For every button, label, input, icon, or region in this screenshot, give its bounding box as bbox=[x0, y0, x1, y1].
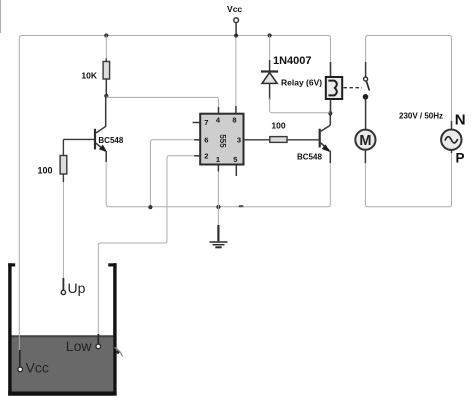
tank left wall bbox=[8, 263, 11, 395]
svg-text:BC548: BC548 bbox=[98, 136, 123, 145]
wire: small dark dash on net bbox=[239, 205, 244, 207]
left edge artifact line bbox=[0, 0, 2, 33]
svg-text:555: 555 bbox=[218, 134, 227, 148]
pin 2 lead bbox=[194, 155, 200, 157]
svg-text:Low: Low bbox=[66, 338, 93, 354]
svg-text:M: M bbox=[359, 133, 371, 149]
wire: diode bottom to relay junction bbox=[270, 98, 331, 113]
wire: 555 pin 6 to lower net bbox=[150, 140, 200, 207]
wire: emitter net (main horizontal) bbox=[106, 162, 330, 207]
svg-text:Vcc: Vcc bbox=[227, 4, 242, 14]
switch SW1 (relay contact) bbox=[363, 62, 369, 130]
svg-text:1: 1 bbox=[216, 155, 220, 164]
pin 4 lead bbox=[218, 107, 220, 114]
wire: junction to 555 pin 4 bbox=[106, 96, 218, 107]
node: rail junction at 10K bbox=[104, 33, 108, 37]
wire artifact crossing right wall bbox=[115, 348, 123, 357]
transistor Q2 BC548 bbox=[320, 113, 331, 163]
node: junction net / pin 1 / ground bbox=[216, 205, 220, 209]
svg-text:6: 6 bbox=[204, 136, 208, 145]
probe terminal Up bbox=[61, 278, 65, 295]
node: rail junction at Vcc terminal bbox=[234, 33, 238, 37]
wire: R3 to Q2 base bbox=[287, 139, 319, 141]
diode D1 1N4007 bbox=[261, 36, 278, 101]
tank bottom wall bbox=[8, 391, 116, 395]
Vcc terminal bbox=[234, 18, 239, 36]
tank right wall bbox=[113, 263, 116, 395]
wire: rail to resistor R1 bbox=[105, 36, 107, 59]
IC U1 555 timer bbox=[200, 114, 243, 165]
resistor R3 100 (horizontal) bbox=[270, 137, 287, 143]
svg-text:7: 7 bbox=[204, 118, 208, 127]
wire: left rail into tank + Vcc probe bbox=[18, 350, 23, 372]
svg-text:1N4007: 1N4007 bbox=[273, 55, 312, 67]
pin 1 lead bbox=[217, 165, 219, 172]
svg-text:Relay (6V): Relay (6V) bbox=[281, 78, 322, 88]
node: junction net / pin 6 bbox=[148, 205, 152, 209]
tank water bbox=[12, 336, 114, 392]
svg-text:P: P bbox=[456, 151, 465, 166]
svg-text:BC548: BC548 bbox=[297, 153, 322, 162]
svg-text:N: N bbox=[455, 112, 466, 129]
svg-text:8: 8 bbox=[232, 116, 236, 125]
svg-text:Vcc: Vcc bbox=[26, 360, 49, 376]
node: junction relay / diode / Q2 collector bbox=[328, 111, 332, 115]
wire: 555 pin 3 to R3 bbox=[244, 139, 270, 141]
motor M1 bbox=[355, 130, 375, 150]
svg-text:230V / 50Hz: 230V / 50Hz bbox=[399, 111, 443, 120]
svg-text:2: 2 bbox=[204, 152, 208, 161]
wire: Vcc top rail (left vertical + top horizontal to relay) bbox=[19, 36, 330, 353]
ground bbox=[210, 225, 228, 247]
pin 7 lead (stub) bbox=[193, 122, 201, 124]
svg-text:100: 100 bbox=[271, 121, 285, 131]
svg-text:10K: 10K bbox=[81, 71, 97, 81]
node: rail junction at diode D1 bbox=[268, 33, 272, 37]
svg-text:3: 3 bbox=[237, 136, 241, 145]
resistor R2 100 (vertical) bbox=[60, 139, 67, 182]
wire: dashed relay-to-switch link bbox=[344, 87, 363, 89]
AC source V1 230V/50Hz bbox=[441, 121, 461, 150]
wire: top-right link switch to AC source bbox=[366, 36, 452, 122]
wire: Q1 base to R2 bbox=[63, 138, 94, 140]
pin 8 lead bbox=[235, 106, 237, 114]
wire: 555 pin 2 to Low probe bbox=[98, 156, 200, 334]
relay RL1 coil bbox=[326, 62, 342, 113]
svg-text:100: 100 bbox=[37, 166, 52, 176]
probe terminal Low bbox=[96, 334, 101, 349]
dark nub on right wall bbox=[116, 351, 119, 353]
pin 5 lead (stub) bbox=[235, 165, 237, 177]
pin 6 lead bbox=[194, 139, 200, 141]
svg-text:5: 5 bbox=[233, 155, 237, 164]
svg-text:Up: Up bbox=[68, 280, 86, 296]
tank right rim flange bbox=[108, 263, 116, 266]
node: junction R1 / Q1 collector / pin4 wire bbox=[104, 94, 108, 98]
resistor R1 10K bbox=[103, 59, 110, 96]
transistor Q1 BC548 bbox=[95, 96, 107, 162]
wire: motor to bottom loop bbox=[365, 150, 451, 207]
tank left rim flange bbox=[8, 263, 15, 266]
wire: Vcc rail to 555 pin 8 bbox=[235, 36, 237, 107]
wire: 555 pin 1 down through net to ground bbox=[217, 172, 219, 226]
wire: R2 down to Up probe bbox=[62, 182, 64, 278]
tank water top edge bbox=[12, 335, 114, 337]
